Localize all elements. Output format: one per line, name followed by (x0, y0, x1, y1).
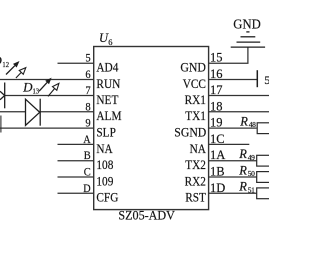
wire pin15 (209, 47, 248, 63)
svg-text:1B: 1B (210, 165, 225, 179)
svg-text:R: R (239, 114, 248, 128)
svg-text:R: R (238, 163, 247, 177)
D12 emission arrow 1 (filled head) (6, 61, 20, 75)
left pin numbers (83, 51, 91, 195)
svg-text:12: 12 (2, 61, 9, 69)
svg-text:18: 18 (210, 99, 223, 113)
svg-text:13: 13 (33, 87, 40, 95)
svg-text:49: 49 (248, 153, 255, 162)
svg-text:109: 109 (96, 173, 113, 188)
svg-text:RUN: RUN (96, 76, 120, 91)
svg-text:CFG: CFG (96, 190, 118, 205)
svg-text:GND: GND (180, 60, 206, 75)
wire pin19 (209, 127, 257, 129)
LED D12 (cut off at left edge) triangle + cathode bar (0, 83, 5, 109)
capacitor plate near pin16 (256, 70, 258, 87)
D13 emission arrow 2 (open head) (48, 83, 59, 96)
svg-text:1A: 1A (210, 148, 225, 162)
svg-text:8: 8 (85, 99, 90, 113)
svg-text:17: 17 (210, 83, 223, 97)
wire pinC (58, 176, 94, 178)
wire pin18 (209, 111, 269, 113)
LED D13 triangle + cathode bar (26, 99, 41, 126)
resistor R49 box (257, 155, 271, 166)
svg-text:6: 6 (85, 67, 90, 81)
svg-text:SZ05-ADV: SZ05-ADV (118, 207, 175, 222)
right pin numbers (210, 51, 225, 195)
wire pinB (58, 160, 94, 162)
label R48 (239, 114, 256, 129)
wire pin1C (209, 143, 250, 145)
wire pin8 right (40, 111, 93, 113)
svg-text:51: 51 (248, 186, 255, 195)
svg-text:RX1: RX1 (185, 92, 206, 107)
wire pin5 (58, 62, 94, 64)
svg-text:16: 16 (210, 67, 223, 81)
LED D11 cathode bar (cut off at left edge) (0, 116, 2, 133)
resistor R48 box (257, 123, 271, 134)
IC U6 (SZ05-ADV module) body (94, 47, 209, 210)
svg-text:1D: 1D (210, 181, 225, 195)
label R50 (238, 163, 255, 178)
svg-text:R: R (238, 180, 247, 194)
svg-text:TX1: TX1 (185, 108, 206, 123)
svg-text:D: D (83, 181, 91, 195)
svg-text:C: C (84, 165, 91, 179)
wire pinA (58, 143, 94, 145)
svg-text:108: 108 (96, 157, 113, 172)
svg-text:5: 5 (85, 51, 90, 65)
wire pin6 (0, 79, 94, 81)
left internal labels (96, 60, 121, 205)
wire pin17 (209, 95, 269, 97)
svg-text:VCC: VCC (183, 76, 206, 91)
label U6 (99, 31, 113, 47)
svg-text:9: 9 (85, 116, 90, 130)
D13 emission arrow 1 (filled head) (39, 78, 52, 92)
svg-text:TX2: TX2 (185, 157, 206, 172)
wire pinD (58, 192, 94, 194)
wire pin16 (209, 79, 258, 81)
label R51 (238, 180, 255, 195)
svg-text:B: B (84, 148, 91, 162)
svg-text:7: 7 (85, 83, 90, 97)
label R49 (238, 147, 255, 162)
svg-text:R: R (238, 147, 247, 161)
wire pin7 (5, 95, 94, 97)
svg-text:RX2: RX2 (185, 173, 206, 188)
wire pin1B (209, 176, 257, 178)
svg-text:19: 19 (210, 116, 223, 130)
svg-text:SGND: SGND (174, 125, 206, 140)
svg-text:5: 5 (264, 73, 269, 87)
wire pin8 left (0, 111, 26, 113)
svg-text:NA: NA (190, 141, 207, 156)
svg-text:6: 6 (108, 37, 112, 47)
svg-text:48: 48 (249, 120, 256, 129)
D12 emission arrow 2 (open head) (16, 68, 26, 78)
ground symbol GND (231, 32, 265, 47)
svg-text:RST: RST (185, 190, 206, 205)
svg-text:NA: NA (96, 141, 113, 156)
resistor R50 box (257, 172, 271, 183)
right internal labels (174, 60, 206, 205)
svg-text:GND: GND (233, 18, 260, 33)
svg-text:AD4: AD4 (96, 60, 118, 75)
svg-text:SLP: SLP (96, 125, 116, 140)
svg-text:50: 50 (248, 169, 255, 178)
svg-text:15: 15 (210, 51, 223, 65)
svg-text:1C: 1C (210, 132, 225, 146)
resistor R51 box (257, 188, 271, 199)
label D12 (partially cut) (0, 53, 9, 69)
svg-text:D: D (22, 80, 33, 95)
svg-text:NET: NET (96, 92, 118, 107)
wire pin1A (209, 160, 257, 162)
label D13 (22, 80, 39, 96)
svg-text:A: A (83, 132, 91, 146)
wire pin1D (209, 192, 257, 194)
wire pin9 (0, 127, 94, 129)
svg-text:ALM: ALM (96, 108, 121, 123)
